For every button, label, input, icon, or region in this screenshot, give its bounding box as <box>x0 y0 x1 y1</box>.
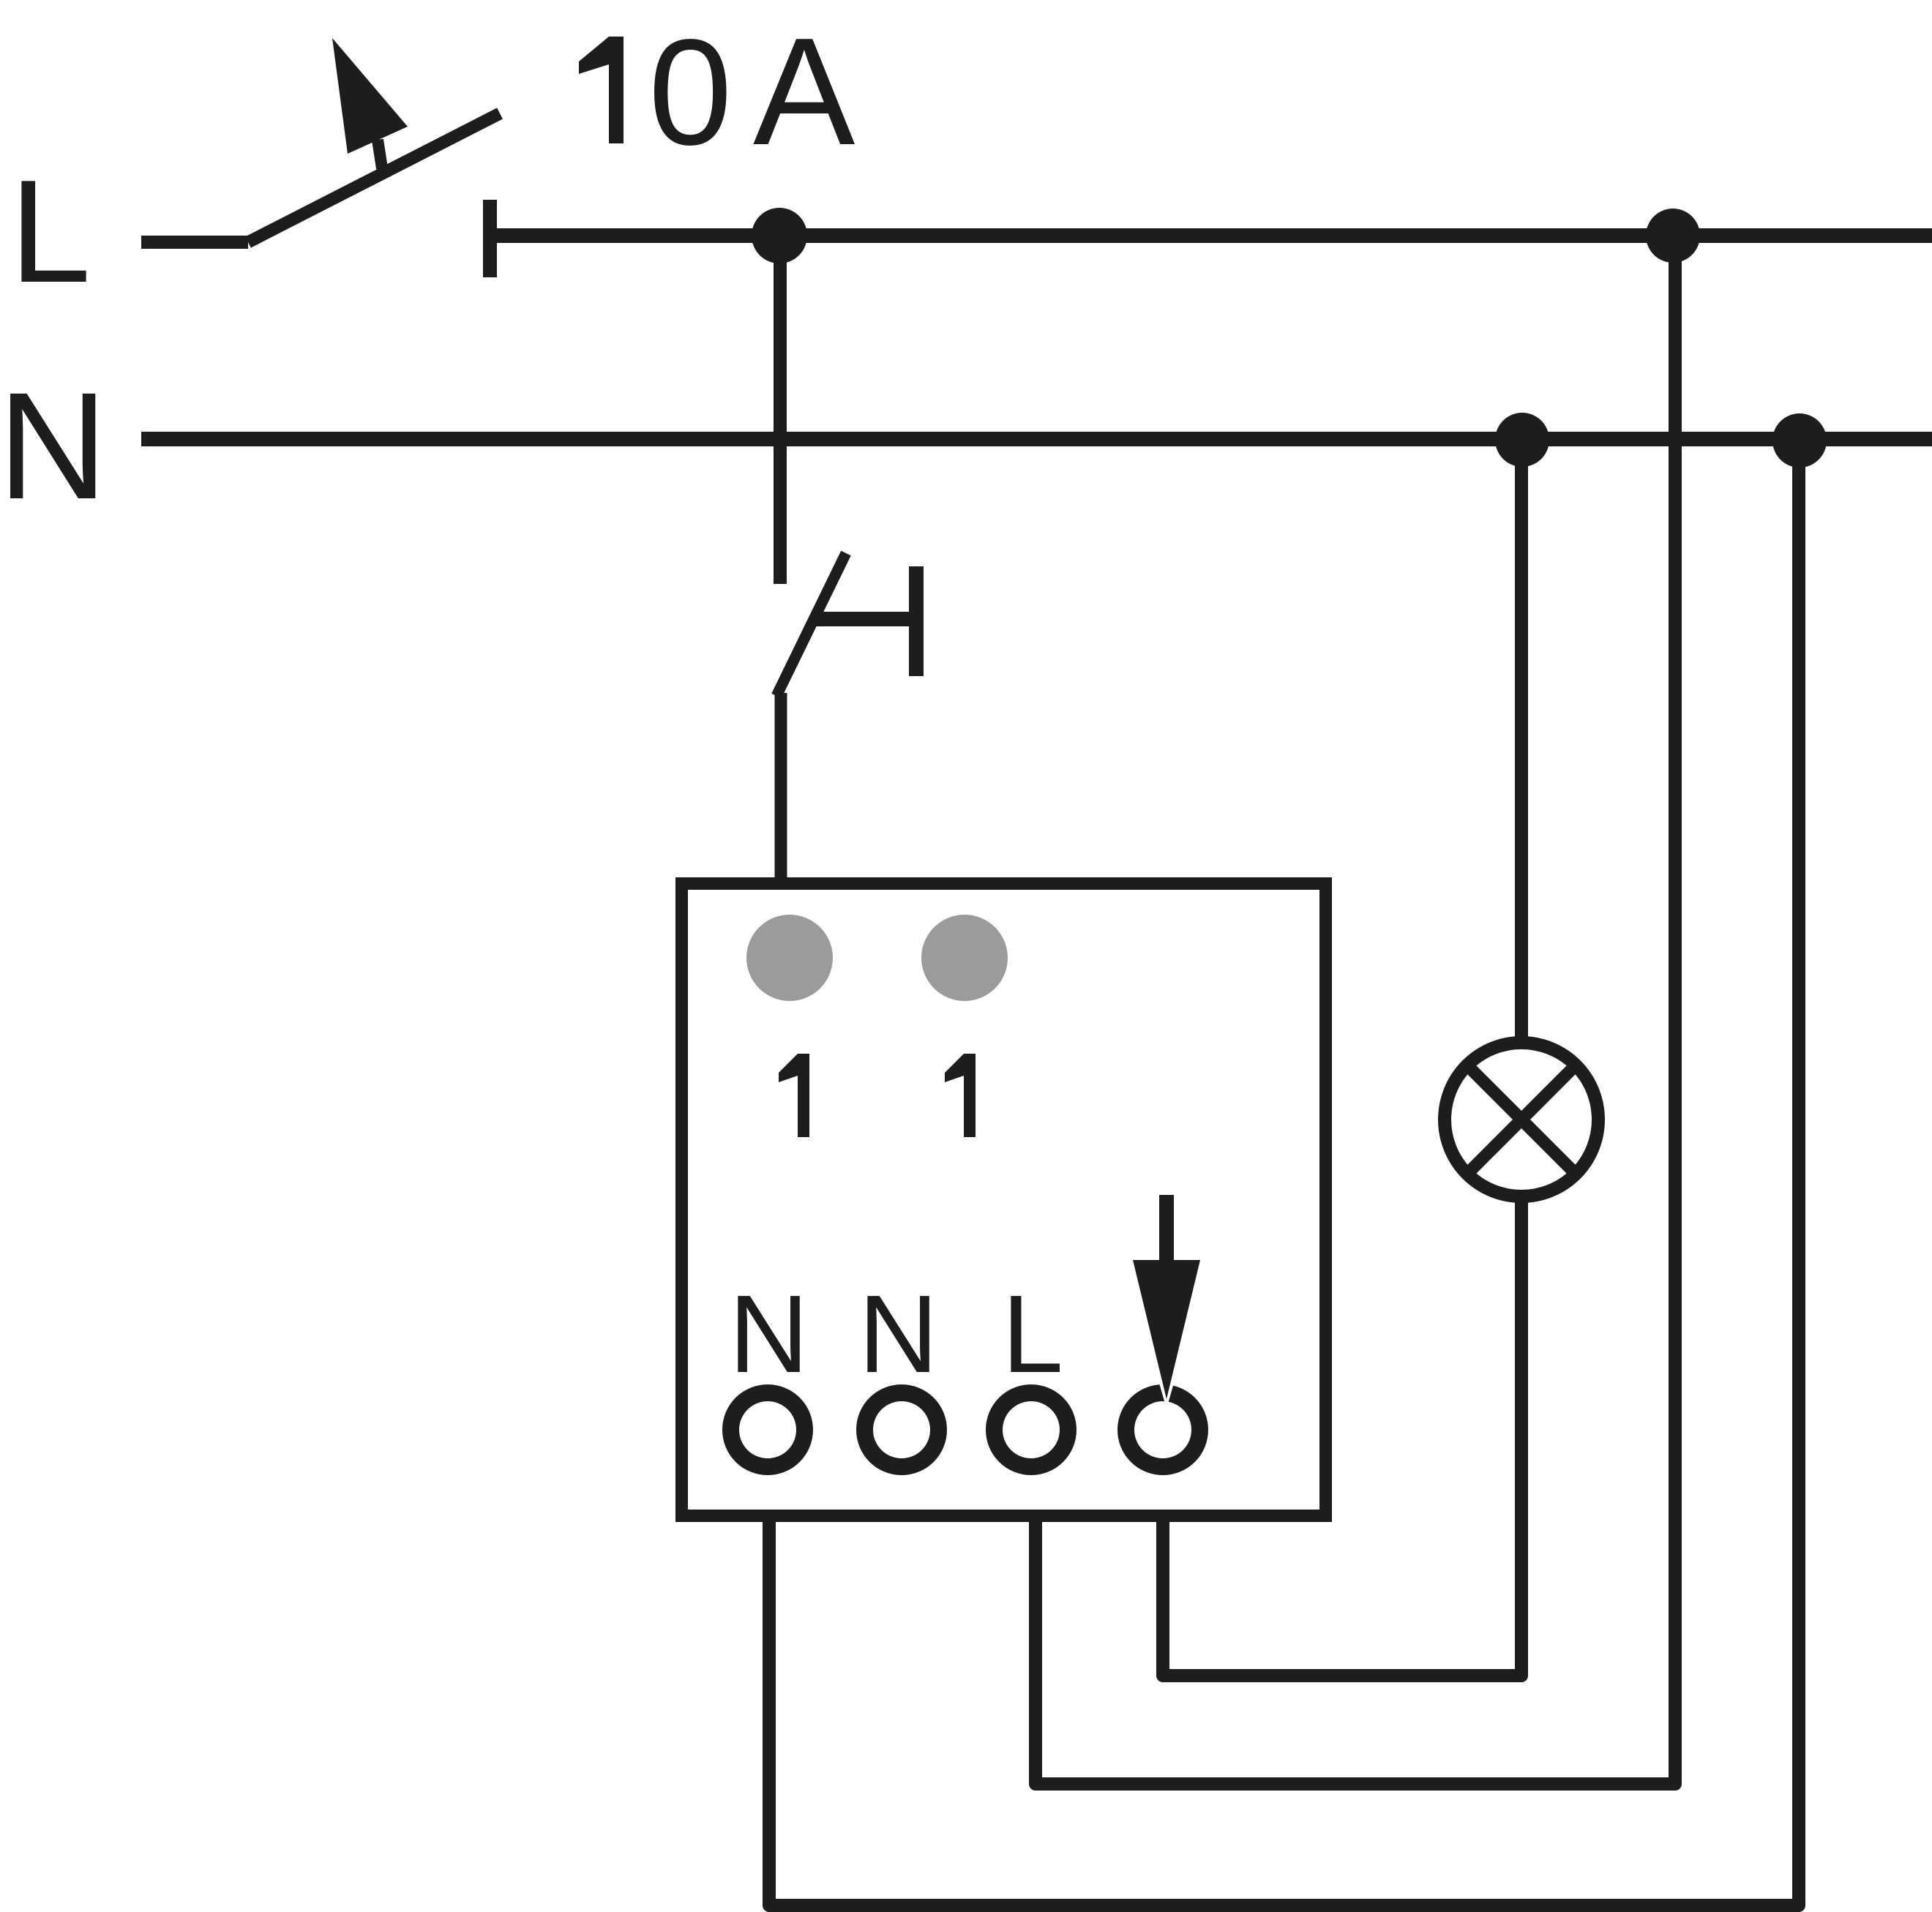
circuit breaker S1 blade <box>248 113 500 242</box>
svg-text:N: N <box>729 1272 809 1395</box>
junction node L2 <box>1646 209 1700 263</box>
wire L input stub <box>141 236 248 249</box>
wire from L junction down to pushbutton <box>774 236 787 584</box>
wire N bus <box>141 432 1932 446</box>
wire terminal 1 to N bus (down, right, up) <box>769 440 1799 1905</box>
wire N bus down to lamp <box>1515 440 1528 1043</box>
pin label 1 (right) <box>945 1054 976 1137</box>
wire pushbutton to device box <box>775 693 787 883</box>
terminal 1 N <box>731 1393 805 1467</box>
junction node N1 <box>1495 413 1549 467</box>
indicator lamp spot 2 <box>921 915 1008 1001</box>
pushbutton S2 blade <box>776 553 846 696</box>
pin label 1 (left) <box>779 1054 809 1137</box>
svg-text:N: N <box>0 361 108 531</box>
svg-text:0: 0 <box>648 8 733 176</box>
wire terminal 4 to lamp (down, right, up) <box>1163 1200 1521 1676</box>
terminal 2 N <box>865 1393 939 1467</box>
svg-text:L: L <box>1002 1272 1063 1395</box>
junction node N2 <box>1772 413 1827 468</box>
terminal 3 L <box>995 1393 1068 1467</box>
indicator lamp spot 1 <box>746 915 833 1001</box>
svg-text:L: L <box>10 150 91 313</box>
wire L bus <box>497 228 1932 243</box>
lamp E1 <box>1445 1043 1598 1196</box>
junction node L1 <box>752 208 807 263</box>
output arrow into terminal 4 <box>1133 1195 1200 1399</box>
wire terminal 3 to L bus (down, right, up) <box>1036 236 1675 1784</box>
circuit breaker fixed contact <box>483 200 497 277</box>
device box U1 <box>682 884 1326 1516</box>
terminal 4 switched output <box>1126 1381 1200 1467</box>
svg-text:N: N <box>858 1272 938 1395</box>
svg-text:A: A <box>753 7 855 177</box>
value label 10 A <box>579 7 855 177</box>
pushbutton S2 actuator <box>814 566 916 676</box>
circuit breaker actuation arrow <box>332 38 408 168</box>
